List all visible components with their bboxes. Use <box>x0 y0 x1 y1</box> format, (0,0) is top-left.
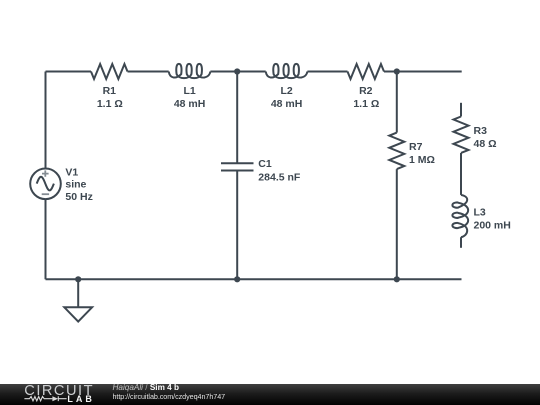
svg-text:sine: sine <box>65 179 86 191</box>
svg-text:200 mH: 200 mH <box>474 219 511 231</box>
resistor R1 <box>91 64 127 110</box>
svg-text:48 mH: 48 mH <box>174 98 206 110</box>
svg-text:1.1 Ω: 1.1 Ω <box>97 98 123 110</box>
svg-text:R2: R2 <box>359 85 373 97</box>
wire: C1 rail top segment <box>236 72 238 164</box>
inductor L3 <box>452 195 510 237</box>
wire: top rail L2 to R2 <box>307 71 347 73</box>
wire: top rail R2 to node B and stub to right <box>384 71 462 73</box>
node B: junction dot R7 top <box>394 68 400 74</box>
resistor R2 <box>348 64 384 110</box>
ground <box>64 279 92 321</box>
capacitor C1 <box>221 158 301 183</box>
svg-text:L3: L3 <box>474 206 486 218</box>
node C: junction dot C1 bottom <box>234 276 240 282</box>
wire: bottom rail <box>46 278 462 280</box>
inductor L2 <box>266 64 308 110</box>
svg-text:48 mH: 48 mH <box>271 98 303 110</box>
CircuitLab logo <box>0 384 110 405</box>
resistor R7 <box>389 133 435 169</box>
resistor R3 <box>454 117 497 153</box>
node D: junction dot R7 bottom <box>394 276 400 282</box>
wire: top rail R1 to L1 <box>128 71 169 73</box>
wire: C1 rail bottom segment <box>236 171 238 280</box>
node A: junction dot C1 top <box>234 68 240 74</box>
inductor L1 <box>169 64 211 110</box>
svg-text:LAB: LAB <box>67 394 95 404</box>
svg-text:1 MΩ: 1 MΩ <box>409 154 435 166</box>
svg-text:48 Ω: 48 Ω <box>474 138 497 150</box>
wire: top rail L1 to node A <box>210 71 265 73</box>
svg-text:284.5 nF: 284.5 nF <box>258 171 301 183</box>
svg-text:V1: V1 <box>65 167 78 179</box>
wire: left rail V1 bottom to bottom rail <box>45 199 47 279</box>
svg-text:R1: R1 <box>103 85 117 97</box>
wire: L3 bottom lead <box>460 237 462 248</box>
wire: R3 to L3 lead <box>460 153 462 195</box>
svg-text:L1: L1 <box>183 85 195 97</box>
wire: R3 top lead <box>460 103 462 117</box>
svg-text:R3: R3 <box>474 125 488 137</box>
svg-text:1.1 Ω: 1.1 Ω <box>353 98 379 110</box>
wire: R7 rail top segment <box>396 72 398 133</box>
footer bar <box>0 384 540 405</box>
wire: R7 rail bottom segment <box>396 169 398 279</box>
node G: junction dot at ground tap <box>75 276 81 282</box>
wire: left rail down to V1 <box>45 72 47 169</box>
svg-text:L2: L2 <box>280 85 292 97</box>
wire: top rail left segment (V1 top corner to R1) <box>46 71 92 73</box>
svg-text:R7: R7 <box>409 141 423 153</box>
svg-text:50 Hz: 50 Hz <box>65 191 92 203</box>
svg-text:C1: C1 <box>258 158 272 170</box>
voltage source V1 <box>30 167 93 203</box>
